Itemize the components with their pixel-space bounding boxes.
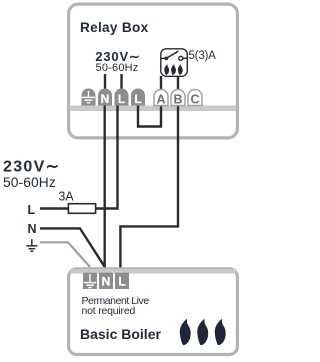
wire: link terminal L to terminal A (138, 104, 161, 127)
wire: relay L down to fuse (96, 104, 118, 209)
svg-text:L: L (118, 92, 125, 106)
svg-text:N: N (28, 222, 37, 236)
wire: mains earth to boiler earth (40, 242, 90, 267)
terminal: relay B (171, 90, 185, 107)
relay switch contact (161, 51, 188, 60)
wire: mains L to fuse (40, 207, 68, 209)
wire: supply stub to terminal L (120, 74, 122, 90)
svg-text:Relay Box: Relay Box (80, 20, 149, 35)
terminal: relay N (98, 89, 112, 106)
relay contact K1 symbol box (161, 49, 188, 77)
svg-text:A: A (156, 92, 165, 106)
fuse F1 (68, 204, 95, 214)
svg-text:L: L (28, 203, 36, 217)
boiler flames icon (180, 319, 226, 345)
wire: relay N down to boiler N (103, 104, 105, 268)
svg-text:L: L (118, 275, 125, 289)
terminal: boiler L (115, 273, 129, 289)
svg-text:B: B (173, 92, 182, 106)
wire: mains N to boiler N (40, 228, 105, 266)
svg-text:L: L (134, 92, 141, 106)
terminal: relay L supply (115, 89, 129, 107)
wire: supply stub to terminal N (104, 74, 106, 90)
relay box enclosure (69, 4, 238, 138)
svg-text:50-60Hz: 50-60Hz (96, 62, 139, 74)
relay terminal strip bar (70, 106, 235, 112)
boiler box enclosure (69, 269, 238, 355)
svg-text:N: N (101, 92, 110, 106)
svg-text:230V∼: 230V∼ (3, 159, 60, 176)
relay heating flames icon (164, 64, 182, 75)
svg-text:Basic Boiler: Basic Boiler (80, 326, 161, 342)
wire: relay B down to boiler L (120, 104, 178, 268)
terminal: relay L link (131, 89, 145, 107)
terminal: relay C (188, 90, 202, 107)
wire: relay contact to terminal A (160, 76, 162, 91)
terminal: boiler N (99, 273, 113, 289)
ground symbol (mains earth) (26, 239, 37, 251)
svg-text:not required: not required (82, 305, 136, 317)
svg-text:N: N (102, 275, 111, 289)
terminal: relay A (154, 90, 168, 107)
svg-text:C: C (190, 92, 199, 106)
svg-text:50-60Hz: 50-60Hz (3, 175, 56, 190)
boiler terminal strip bar (70, 269, 235, 274)
terminal: boiler earth (83, 273, 97, 289)
terminal: relay earth (82, 89, 96, 106)
wire: relay contact to terminal B (177, 76, 179, 91)
svg-text:5(3)A: 5(3)A (189, 50, 217, 62)
svg-text:3A: 3A (58, 189, 74, 203)
